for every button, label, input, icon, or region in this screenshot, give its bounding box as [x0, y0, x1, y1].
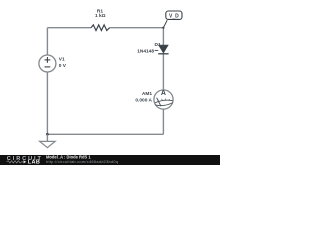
- svg-text:A: A: [161, 90, 166, 97]
- wire: V1 bottom to bottom rail: [46, 72, 48, 134]
- svg-text:0 V: 0 V: [59, 63, 67, 69]
- wire: right branch corner down to diode: [162, 28, 164, 46]
- resistor R1 zigzag: [91, 25, 110, 31]
- ammeter tick 2: [161, 99, 163, 101]
- ammeter tick 3: [165, 99, 167, 101]
- node V_D anchor dot: [162, 27, 164, 29]
- wire: top rail right of R1 to top-right corner: [110, 27, 164, 29]
- wire: bottom rail: [47, 133, 163, 135]
- wire: top-left vertical from V1 top to top rail: [46, 28, 48, 55]
- footer bar: [0, 155, 220, 165]
- diode D1 cathode bar: [158, 53, 168, 55]
- node V_D leader line: [163, 20, 167, 28]
- svg-text:V_D: V_D: [169, 13, 179, 19]
- ammeter lower arc: [155, 103, 173, 106]
- wire: diode to ammeter: [162, 54, 164, 90]
- ground stub wire: [46, 134, 48, 141]
- ammeter scale arc: [155, 100, 173, 103]
- voltage source V1 circle: [39, 55, 56, 72]
- V1 plus sign: [45, 59, 51, 61]
- svg-text:LAB: LAB: [28, 160, 41, 165]
- footer logo zigzag: [7, 161, 24, 163]
- ammeter needle: [157, 98, 161, 107]
- leader dash from 1N4148 to diode: [155, 49, 159, 51]
- svg-text:http://circuitlab.com/c466add2: http://circuitlab.com/c466add23bd0q: [46, 159, 118, 164]
- junction dot at ground node: [46, 133, 49, 136]
- footer logo diode glyph: [24, 160, 27, 163]
- canvas background: [0, 0, 220, 165]
- svg-text:1 kΩ: 1 kΩ: [95, 13, 106, 19]
- ammeter AM1 circle: [154, 90, 173, 109]
- svg-text:1N4148: 1N4148: [137, 48, 154, 54]
- ammeter tick 4: [168, 99, 171, 101]
- wire: top rail left of R1: [47, 27, 91, 29]
- V1 minus sign: [45, 66, 51, 68]
- wire: ammeter to bottom-right corner: [162, 109, 164, 134]
- ammeter tick 1: [157, 100, 160, 102]
- svg-text:AM1: AM1: [142, 91, 152, 97]
- diode D1 triangle: [159, 45, 169, 53]
- node V_D flag box: [166, 11, 182, 19]
- ground symbol triangle: [40, 141, 56, 147]
- svg-text:0.000 A: 0.000 A: [135, 98, 152, 104]
- svg-text:V1: V1: [59, 57, 65, 63]
- svg-text:D1: D1: [155, 42, 161, 48]
